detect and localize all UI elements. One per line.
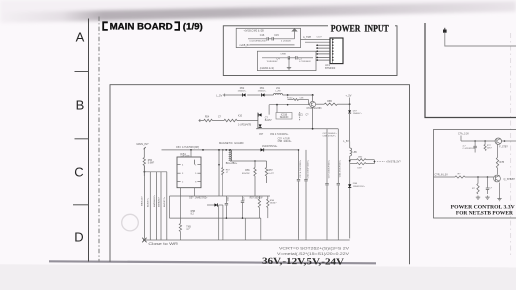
ground in box 2 [288, 58, 290, 66]
svg-text:BA157: BA157 [265, 119, 273, 122]
bus junction at 156.5 [156, 238, 158, 240]
svg-text:B: B [76, 98, 85, 113]
svg-text:A_TRH: A_TRH [303, 36, 311, 39]
bus junction at 298.5 [298, 238, 300, 240]
row tick B/C [75, 138, 89, 140]
resistor below [477, 177, 479, 184]
faint right sheet border [510, 33, 512, 258]
svg-text:C/MB: C/MB [280, 53, 286, 55]
row tick C/D [73, 204, 89, 206]
svg-text:1-UF53/4/7B: 1-UF53/4/7B [238, 124, 251, 126]
svg-text:C-1/2UF22UF: C-1/2UF22UF [463, 148, 476, 150]
main schematic frame [110, 85, 410, 265]
clamp diode pair D5x [257, 113, 259, 129]
power control box [434, 130, 516, 219]
svg-text:DZ1: DZ1 [299, 115, 304, 117]
bottom gray area below scan bar [0, 264, 516, 290]
svg-text:C10?: C10? [317, 36, 323, 38]
bus junction at 338.3 [337, 238, 339, 240]
cap/res pair [242, 196, 244, 201]
main AC wire [162, 149, 299, 151]
svg-text:F_STB?: F_STB? [499, 147, 508, 149]
resistor R57 [265, 168, 267, 177]
IC51 drain link [190, 150, 192, 157]
diode D5? [207, 204, 214, 206]
svg-text:Q_STB/B?: Q_STB/B? [504, 178, 516, 181]
drops to ground bus [218, 205, 220, 238]
svg-text:36V,-12V,5V,-24V: 36V,-12V,5V,-24V [262, 257, 344, 268]
bus junction at 327 [326, 238, 328, 240]
snubber loop DZ2/C58 [287, 94, 289, 96]
svg-text:1N4007RVS2+: 1N4007RVS2+ [262, 146, 278, 148]
svg-text:1N4007+: 1N4007+ [353, 113, 363, 115]
svg-text:L5B: L5B [353, 152, 358, 154]
output cap wire 2 [305, 150, 307, 179]
svg-text:R54: R54 [205, 117, 210, 119]
svg-text:POWER CONTROL 3.3V: POWER CONTROL 3.3V [451, 204, 515, 210]
svg-text:MAGNETIC GUARD: MAGNETIC GUARD [219, 141, 244, 145]
junction into Q50 [312, 94, 314, 96]
svg-text:A: A [76, 30, 85, 45]
wire from terminal [445, 33, 516, 46]
diode D5B [348, 184, 351, 187]
svg-text:C?R_IN_3V: C?R_IN_3V [435, 173, 449, 176]
capacitor below [487, 177, 489, 188]
svg-text:?0UF/400V: ?0UF/400V [266, 61, 278, 63]
connector pin 1 [332, 39, 333, 40]
svg-text:+_5V: +_5V [346, 94, 352, 97]
resistor R5? small [222, 150, 224, 168]
svg-text:V=metal(.S2*(15=S1)/20=0.22V: V=metal(.S2*(15=S1)/20=0.22V [277, 252, 350, 256]
svg-text:R5?: R5? [269, 170, 274, 172]
IC51 internal bar [193, 160, 195, 165]
svg-text:C5B 100UF/160V+: C5B 100UF/160V+ [307, 159, 309, 178]
svg-text:D5? 1N4937/S2+: D5? 1N4937/S2+ [189, 197, 208, 199]
svg-text:C6B 470UF/25V+: C6B 470UF/25V+ [340, 159, 342, 177]
svg-text:POWER INPUT: POWER INPUT [331, 25, 390, 35]
svg-text:C5B 100UF+: C5B 100UF+ [278, 141, 293, 143]
svg-text:C: C [74, 165, 83, 180]
svg-text:BTN#300: BTN#300 [325, 67, 336, 70]
sheet title MAIN BOARD (1/9) [103, 22, 108, 30]
bus junction at 245.3 [244, 238, 246, 240]
ground arrow in box 1 [294, 32, 296, 39]
svg-text:C5B: C5B [228, 196, 230, 201]
svg-text:KTA/KSC2383: KTA/KSC2383 [307, 107, 322, 110]
svg-text:C6? 1000UF+: C6? 1000UF+ [323, 133, 338, 135]
transistor Q_STB [494, 175, 501, 182]
svg-text:C16: C16 [260, 34, 265, 37]
resistor R_STB [484, 141, 486, 145]
svg-text:C?A_3.3V: C?A_3.3V [458, 133, 469, 136]
svg-text:0.022UF/AC250V: 0.022UF/AC250V [249, 40, 267, 43]
connector pin 7 [316, 56, 330, 58]
svg-text:MAIN_IN?: MAIN_IN? [137, 142, 150, 146]
bundle crossbar [144, 171, 167, 173]
svg-text:+(V/1B,C/M2 & /2B: +(V/1B,C/M2 & /2B [244, 30, 265, 33]
labelled drop wire x=156.5 [156, 172, 158, 239]
primary return vertical [218, 150, 220, 196]
svg-text:560/4?: 560/4? [270, 203, 277, 205]
svg-text:AC/DET+: AC/DET+ [147, 197, 150, 207]
svg-text:mA/B_BV: mA/B_BV [240, 44, 251, 47]
bus junction at 260.8 [260, 238, 262, 240]
svg-text:820/2W: 820/2W [242, 173, 250, 175]
output cap wire 3 [326, 129, 328, 183]
connector AC1 [330, 38, 343, 64]
svg-text:D: D [74, 230, 83, 245]
svg-text:MAIN_BV: MAIN_BV [141, 196, 144, 206]
power input filter box 2 [257, 51, 316, 70]
svg-text:IC51B: IC51B [281, 114, 288, 116]
bottom scan bar [49, 261, 376, 263]
svg-text:VCRT=0 SOT262+(S)/(3=S 2V: VCRT=0 SOT262+(S)/(3=S 2V [279, 246, 350, 250]
bus junction at 306 [305, 238, 307, 240]
capacitor C_STB [474, 141, 476, 146]
bus junction at 218.7 [218, 238, 220, 240]
svg-text:5.6M?: 5.6M? [148, 162, 155, 164]
IC51 bottom exits [179, 188, 181, 196]
svg-text:R7B: R7B [500, 161, 505, 164]
IC51 internal pin ticks [177, 164, 181, 166]
connector pin 3 [316, 44, 330, 46]
svg-text:L-2W: L-2W [275, 91, 281, 93]
connector pin 2 [332, 42, 333, 43]
transistor Q50 [310, 101, 316, 107]
svg-text:C15: C15 [274, 34, 279, 37]
svg-text:(mi/M24 & /2): (mi/M24 & /2) [260, 67, 275, 70]
svg-text:1N4007+: 1N4007+ [258, 91, 268, 93]
svg-text:C52 4.7UF/400V+: C52 4.7UF/400V+ [270, 134, 289, 136]
svg-text:C6? 1000UF/35V+: C6? 1000UF/35V+ [328, 159, 330, 178]
connector pin 8 [316, 59, 330, 61]
svg-text:C5?: C5? [259, 134, 264, 136]
svg-text:MAIN BOARD: MAIN BOARD [110, 20, 173, 31]
transformer T51 coil [230, 150, 232, 161]
wire with R54 R53 [199, 120, 204, 122]
labelled drop wire x=150.3 [149, 172, 151, 239]
inductor L5B [350, 148, 352, 156]
svg-text:Close to WR: Close to WR [148, 242, 178, 246]
svg-text:K10: K10 [238, 115, 243, 117]
bus terminal cross [142, 238, 146, 243]
svg-text:+5V/STB_5V?: +5V/STB_5V? [386, 161, 401, 163]
bus junction at 222.9 [222, 238, 224, 240]
resistor R50 [143, 149, 145, 158]
svg-text:R56: R56 [245, 170, 250, 172]
output cap wire 4 [337, 129, 339, 183]
terminal lead [144, 147, 146, 149]
svg-text:L51: L51 [276, 87, 281, 90]
resistor R_in [455, 176, 465, 178]
vertical from Q50 [312, 107, 314, 128]
svg-text:4A/MASS2+: 4A/MASS2+ [153, 194, 156, 207]
resistor R7B [497, 144, 499, 157]
svg-text:10K?: 10K? [487, 148, 493, 150]
svg-text:CUF12VB: CUF12VB [181, 156, 191, 158]
antenna terminal [443, 30, 447, 33]
capacitor C5B (vertical label) [225, 196, 227, 203]
labelled drop wire x=161 [160, 172, 162, 239]
output cap wire 1 [298, 150, 300, 179]
svg-text:C53 4.7UF/50V(NP): C53 4.7UF/50V(NP) [176, 146, 199, 149]
svg-text:4.?UF/400V: 4.?UF/400V [299, 61, 311, 63]
main input drop wire [143, 166, 145, 239]
bus junction at 161 [160, 238, 162, 240]
resistor pair [258, 199, 260, 208]
svg-text:FOR NET,STB POWER: FOR NET,STB POWER [456, 211, 513, 217]
row tick A/B [75, 71, 89, 73]
svg-text:0.47?: 0.47? [269, 173, 275, 175]
svg-text:C6B 470UF+: C6B 470UF+ [323, 136, 337, 138]
punch hole circle [122, 214, 139, 231]
grounds [476, 196, 480, 200]
svg-text:A5/DET2+: A5/DET2+ [163, 196, 166, 207]
svg-text:SE140N: SE140N [280, 117, 289, 119]
svg-text:1N5822/S2+: 1N5822/S2+ [353, 186, 366, 188]
diode D53 down [348, 110, 351, 113]
transistor F_STB [495, 138, 501, 144]
IC51B box [276, 113, 292, 120]
connector pin 4 [316, 47, 330, 49]
top scan band (page edge, slightly rotated scan) [0, 0, 516, 23]
left margin border (solid) [88, 19, 90, 262]
bus junction at 166.8 [166, 238, 168, 240]
IC51 box [177, 157, 201, 188]
svg-text:4 u/55&/B: 4 u/55&/B [281, 41, 291, 43]
left margin border (dash-dot) [98, 17, 100, 262]
svg-text:L_5V: L_5V [343, 140, 349, 143]
connector pin 5 [316, 50, 330, 52]
svg-text:1N4007+: 1N4007+ [238, 91, 248, 93]
top right section border [425, 23, 516, 118]
POWER INPUT outer box [223, 26, 397, 76]
resistor R56 [254, 168, 256, 177]
labelled drop wire x=166.8 [166, 172, 168, 239]
svg-text:D52: D52 [240, 87, 245, 90]
svg-text:B1U+8BA+: B1U+8BA+ [226, 162, 238, 165]
svg-text:D5B: D5B [353, 183, 358, 185]
resistor TKB [179, 196, 181, 224]
secondary out wire [230, 160, 267, 162]
svg-text:R5? 560/1W: R5? 560/1W [250, 197, 264, 199]
bus junction at 180.4 [179, 238, 181, 240]
mid wire [434, 176, 456, 178]
horizontal rail connecting secondary components [170, 195, 271, 197]
svg-text:(1/9): (1/9) [183, 20, 203, 31]
lower bus of row B [256, 128, 338, 130]
ground bus [143, 239, 350, 241]
svg-text:C5? 4.7UF/: C5? 4.7UF/ [278, 138, 291, 140]
svg-text:C5? 4.7UF/250V+: C5? 4.7UF/250V+ [300, 159, 302, 177]
power input filter box 1 [236, 28, 300, 47]
svg-text:B/MAIN5?: B/MAIN5? [157, 196, 160, 207]
svg-text:D51: D51 [260, 87, 265, 90]
resistor pair to STB [350, 159, 357, 161]
svg-text:L_5V: L_5V [216, 93, 222, 97]
bus junction at 150.3 [149, 238, 151, 240]
connector pin 6 [316, 53, 330, 55]
